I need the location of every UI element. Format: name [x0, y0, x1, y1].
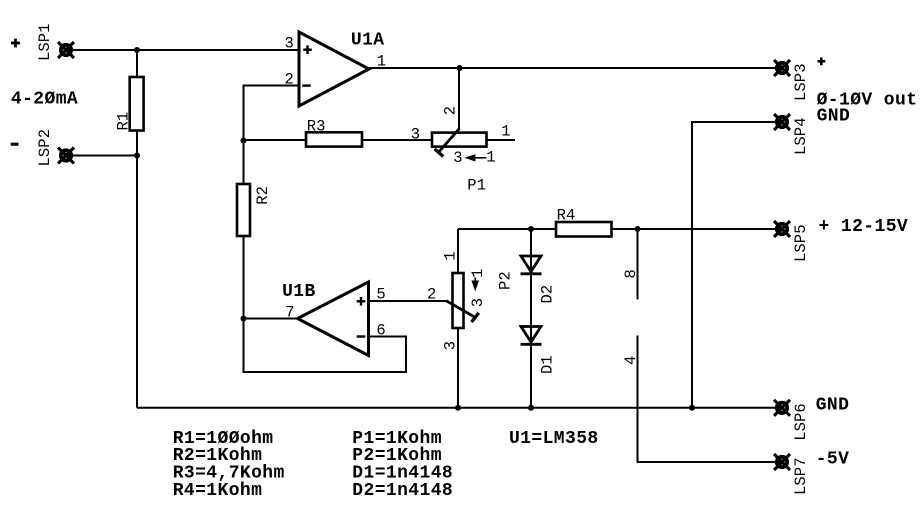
- terminal LSP5: [774, 221, 790, 237]
- svg-text:R3: R3: [307, 117, 326, 135]
- node J junction (LSP4 line): [689, 405, 695, 411]
- svg-text:LSP6: LSP6: [792, 403, 810, 441]
- terminal LSP2: [58, 148, 74, 164]
- diode D2: [521, 256, 542, 274]
- svg-text:P2: P2: [497, 271, 515, 290]
- U1A + input mark: [303, 45, 312, 54]
- wire LSP1 to node A: [66, 49, 299, 51]
- node A junction (R1 top / pin3): [134, 47, 140, 53]
- node E junction (D2 top): [528, 226, 534, 232]
- net label + (output): [818, 58, 826, 66]
- trimmer P2 body: [453, 273, 464, 328]
- svg-text:2: 2: [427, 285, 436, 303]
- svg-text:2: 2: [442, 106, 460, 115]
- svg-text:R2: R2: [254, 186, 272, 205]
- op-amp U1A: [299, 32, 369, 106]
- wire U1B pin6 feedback loop: [244, 319, 407, 373]
- svg-text:LSP3: LSP3: [792, 63, 810, 101]
- svg-text:R4=1Kohm: R4=1Kohm: [173, 481, 263, 501]
- svg-text:3: 3: [442, 341, 460, 350]
- svg-text:+ 12-15V: + 12-15V: [819, 217, 909, 237]
- node H junction (P2 bottom): [455, 405, 461, 411]
- wire +12V rail: [458, 228, 782, 230]
- svg-text:LSP2: LSP2: [36, 129, 54, 167]
- net label + (input): [11, 39, 20, 48]
- P1 wiper direction note 3<-1: [453, 148, 495, 167]
- wire R2 column: [243, 141, 245, 319]
- terminal LSP1: [58, 42, 74, 58]
- node I junction (D1 bottom): [528, 405, 534, 411]
- svg-text:1: 1: [486, 148, 495, 166]
- wire pin 8 stub: [637, 229, 639, 300]
- wire R1 column down to GND rail: [136, 50, 138, 408]
- svg-text:LSP5: LSP5: [792, 224, 810, 262]
- resistor R4: [556, 222, 612, 237]
- op-amp U1B: [298, 282, 369, 356]
- svg-text:P1: P1: [467, 177, 486, 195]
- wire P2 column: [457, 229, 459, 408]
- svg-text:1: 1: [469, 268, 487, 277]
- svg-text:LSP1: LSP1: [36, 23, 54, 61]
- svg-text:D1: D1: [539, 355, 557, 374]
- node D junction (R2 top / R3): [241, 138, 247, 144]
- node G junction (U1B out / R2): [241, 316, 247, 322]
- svg-text:1: 1: [501, 122, 510, 140]
- wire P1 pin2 vertical: [458, 68, 460, 129]
- terminal LSP6: [774, 400, 790, 416]
- terminal LSP3: [774, 60, 790, 76]
- svg-text:U1A: U1A: [351, 31, 385, 51]
- svg-text:LSP4: LSP4: [792, 117, 810, 155]
- wire node D to R3: [244, 139, 307, 141]
- terminal LSP7: [774, 454, 790, 470]
- svg-text:3: 3: [453, 149, 462, 167]
- diode D1: [521, 327, 542, 345]
- wire GND rail: [137, 407, 782, 409]
- svg-text:U1B: U1B: [282, 282, 316, 302]
- P1 wiper: [435, 128, 460, 156]
- svg-text:GND: GND: [817, 107, 851, 127]
- U1A - input mark: [302, 84, 311, 86]
- svg-text:4: 4: [622, 356, 640, 365]
- svg-text:R1: R1: [115, 112, 133, 131]
- wire P1 pin1 stub: [487, 139, 516, 141]
- svg-text:GND: GND: [816, 396, 850, 416]
- wire U1B pin5 to P2 wiper: [369, 300, 447, 302]
- node B junction (R1 bottom): [134, 153, 140, 159]
- wire LSP4 to GND rail: [692, 122, 782, 408]
- svg-text:2: 2: [285, 71, 294, 89]
- svg-text:3: 3: [285, 35, 294, 53]
- net label - (input): [11, 143, 19, 146]
- P2 wiper: [446, 301, 479, 323]
- wire R3 to P1: [362, 139, 432, 141]
- svg-text:D2: D2: [539, 285, 557, 304]
- P2 wiper direction note 1->3: [469, 268, 487, 307]
- svg-text:4-2ØmA: 4-2ØmA: [11, 89, 78, 109]
- node F junction (R4 / pin8): [635, 226, 641, 232]
- trimmer P1 body: [432, 133, 487, 147]
- U1B + input mark: [357, 297, 366, 306]
- node C junction (output / P1 pin2): [457, 65, 463, 71]
- resistor R2: [237, 184, 250, 236]
- svg-text:D2=1n4148: D2=1n4148: [352, 481, 453, 501]
- svg-text:8: 8: [622, 269, 640, 278]
- U1B - input mark: [357, 335, 366, 337]
- resistor R3: [306, 132, 362, 146]
- svg-text:3: 3: [411, 125, 420, 143]
- wire U1B output to R2 column: [244, 318, 298, 320]
- svg-text:U1=LM358: U1=LM358: [509, 429, 599, 449]
- svg-text:-5V: -5V: [816, 450, 850, 470]
- svg-text:LSP7: LSP7: [792, 457, 810, 495]
- wire pin2 horizontal: [244, 86, 300, 141]
- wire diode column: [530, 229, 532, 408]
- wire LSP2 to R1 bottom node: [66, 155, 137, 157]
- wire U1A output to LSP3: [369, 67, 782, 69]
- terminal LSP4: [774, 114, 790, 130]
- svg-text:5: 5: [376, 285, 385, 303]
- wire pin 4 to -5V rail: [638, 336, 783, 463]
- svg-text:3: 3: [469, 298, 487, 307]
- resistor R1: [130, 77, 144, 131]
- svg-text:R4: R4: [557, 207, 576, 225]
- svg-text:1: 1: [442, 251, 460, 260]
